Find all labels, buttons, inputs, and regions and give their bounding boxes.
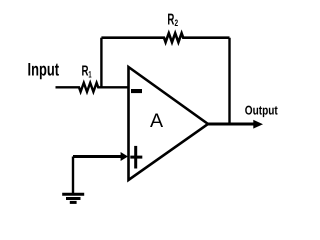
svg-text:2: 2 xyxy=(175,17,179,28)
svg-text:A: A xyxy=(150,110,164,132)
svg-text:Input: Input xyxy=(28,59,60,79)
svg-text:1: 1 xyxy=(88,70,91,80)
svg-text:Output: Output xyxy=(245,103,279,117)
